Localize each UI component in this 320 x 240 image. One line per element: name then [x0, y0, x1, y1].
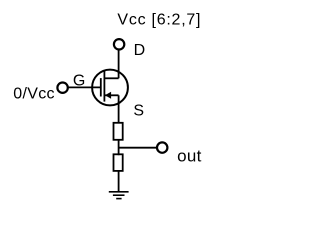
resistor R2 (box): [114, 154, 123, 171]
svg-text:S: S: [133, 103, 144, 120]
svg-text:0/Vcc: 0/Vcc: [13, 85, 55, 102]
Q1 gate bar: [100, 78, 102, 96]
Q1 source arrow: [105, 92, 111, 99]
terminal out: [157, 142, 167, 152]
Q1 envelope circle: [92, 70, 128, 106]
svg-text:G: G: [73, 73, 85, 90]
svg-text:out: out: [177, 147, 202, 166]
wire output horizontal: [119, 147, 157, 149]
svg-text:Vcc [6:2,7]: Vcc [6:2,7]: [117, 11, 201, 28]
wire gate horizontal: [68, 86, 101, 88]
transistor Q1 n-channel MOSFET: [92, 70, 128, 106]
wire R2 to ground: [118, 171, 120, 192]
terminal G input (0/Vcc): [57, 83, 67, 93]
wire source vertical: [118, 95, 120, 123]
ground: [109, 192, 129, 199]
Q1 source stub: [104, 94, 118, 96]
wire R1 to R2: [118, 140, 120, 155]
Q1 drain stub: [104, 77, 118, 79]
Q1 channel bar: [103, 70, 105, 101]
terminal D (Vcc pin): [114, 39, 124, 49]
resistor R1 (box): [114, 123, 123, 140]
svg-text:D: D: [134, 42, 146, 59]
wire drain vertical: [118, 50, 120, 78]
